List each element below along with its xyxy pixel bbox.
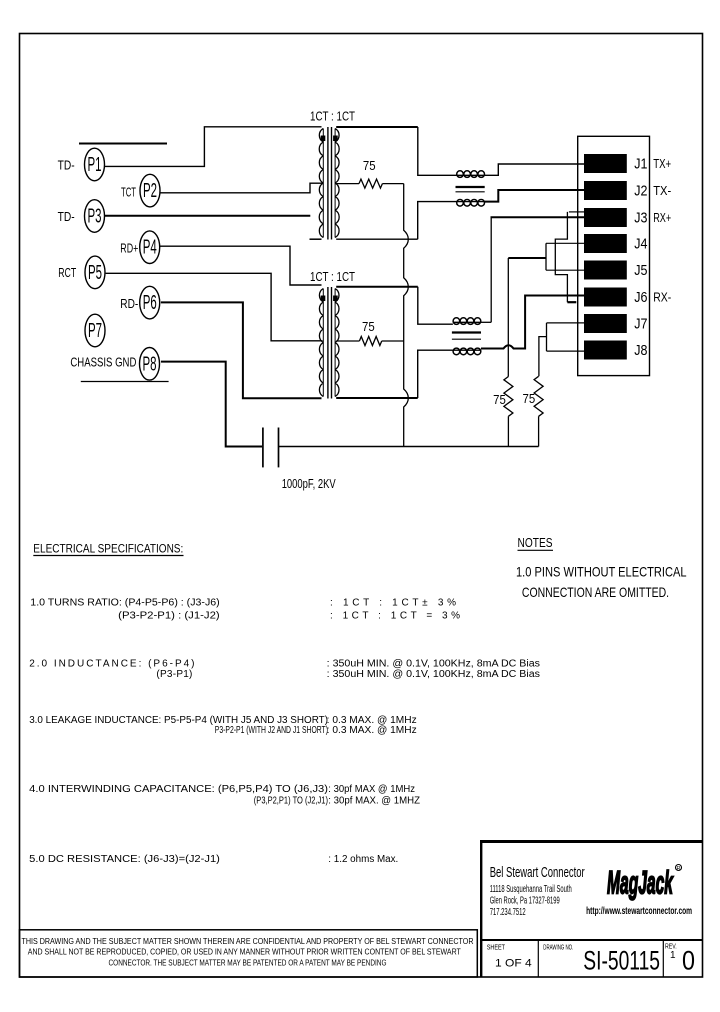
svg-text:P3-P2-P1 (WITH J2 AND J1 SHORT: P3-P2-P1 (WITH J2 AND J1 SHORT): [215, 725, 328, 736]
svg-text:J5: J5: [634, 263, 647, 279]
svg-text:75: 75: [493, 392, 506, 407]
wire P4 to T2 primary top: [160, 246, 322, 285]
svg-text:TD-: TD-: [58, 159, 75, 173]
wire L2 output A up to J3 (thick): [481, 321, 491, 323]
wire P8 (thick) to capacitor C1: [161, 362, 262, 447]
svg-text:717.234.7512: 717.234.7512: [490, 907, 526, 918]
svg-text:: 0.3 MAX. @ 1MHz: : 0.3 MAX. @ 1MHz: [327, 725, 417, 736]
svg-text:CONNECTOR. THE SUBJECT MATTER: CONNECTOR. THE SUBJECT MATTER MAY BE PAT…: [109, 957, 387, 967]
wire P6 (thick) to T2 primary bottom: [161, 302, 322, 398]
pin P4: [140, 231, 160, 264]
resistor R4 75: [534, 376, 543, 416]
line under CHASSIS GND label: [81, 381, 169, 383]
svg-text:J2: J2: [634, 184, 647, 200]
svg-text:1000pF, 2KV: 1000pF, 2KV: [282, 477, 336, 491]
wire T1 bottom to L1 input B: [418, 202, 457, 240]
wire L1 output B to J2 (thick): [485, 190, 585, 202]
wire T1 top to L1 input A: [418, 127, 457, 175]
wire L1 output A to J1: [485, 164, 585, 175]
stub T1 primary bottom lead: [310, 238, 322, 240]
svg-text:TCT: TCT: [121, 186, 136, 200]
wire P3 (thick): [105, 215, 311, 217]
svg-text:5.0 DC RESISTANCE: (J6-J3)=(J2: 5.0 DC RESISTANCE: (J6-J3)=(J2-J1): [29, 854, 220, 865]
wire T1 secondary bottom: [336, 238, 418, 240]
pin P5: [85, 256, 105, 289]
pin P3: [85, 200, 105, 233]
svg-text:75: 75: [362, 319, 375, 334]
wire T2 secondary bottom (thick): [336, 397, 418, 399]
wire J7-J8 tie vertical: [546, 323, 548, 351]
contact J8: [584, 341, 627, 360]
svg-text:Bel Stewart Connector: Bel Stewart Connector: [490, 864, 585, 881]
wire ground rail: [279, 446, 539, 448]
wire T2 secondary center tap to R2: [336, 340, 359, 342]
svg-text:P4: P4: [143, 237, 157, 259]
contact J3: [584, 208, 627, 227]
svg-text:: 1CT : 1CT = 3%: : 1CT : 1CT = 3%: [330, 611, 460, 622]
contact J5: [584, 261, 627, 280]
pin P8: [140, 348, 160, 381]
wire T2 bottom to L2 input B: [418, 350, 453, 398]
choke L1 core: [456, 187, 485, 192]
svg-text:: 30pf MAX. @ 1MHZ: : 30pf MAX. @ 1MHZ: [328, 796, 420, 807]
svg-text:0: 0: [682, 946, 695, 976]
svg-text:1 OF 4: 1 OF 4: [495, 958, 532, 970]
svg-text:: 350uH MIN. @ 0.1V, 100KHz, 8: : 350uH MIN. @ 0.1V, 100KHz, 8mA DC Bias: [327, 669, 540, 680]
svg-text:: 1.2 ohms Max.: : 1.2 ohms Max.: [328, 854, 398, 865]
choke L1 winding B: [457, 200, 485, 207]
choke L2 winding B: [453, 348, 481, 355]
wire tie jog to R4: [539, 337, 547, 377]
wire T2 top to L2 input A: [418, 287, 453, 324]
svg-text:P6: P6: [143, 292, 157, 314]
svg-text:J6: J6: [634, 290, 647, 306]
svg-text:P3: P3: [88, 206, 102, 228]
svg-text:J7: J7: [634, 317, 647, 333]
svg-text:P1: P1: [88, 154, 102, 176]
svg-text:TX+: TX+: [653, 157, 671, 171]
wire tie to R3 (thick): [508, 257, 546, 259]
wire J4-J5 tie vertical: [545, 243, 547, 270]
svg-text:1.0 PINS WITHOUT ELECTRICAL: 1.0 PINS WITHOUT ELECTRICAL: [516, 563, 687, 579]
resistor R2 75 (RX termination): [359, 337, 381, 346]
svg-text:TX-: TX-: [653, 184, 671, 198]
wire R3 drop vertical: [507, 258, 509, 377]
wire to J3 (thick): [491, 216, 585, 218]
svg-text:1: 1: [670, 950, 676, 961]
wire T2 secondary top (thick): [336, 286, 418, 288]
wire T1 secondary center tap to R1: [336, 183, 359, 185]
wire vertical to J3: [490, 217, 492, 322]
svg-text:: 350uH MIN. @ 0.1V, 100KHz, 8: : 350uH MIN. @ 0.1V, 100KHz, 8mA DC Bias: [327, 659, 540, 670]
svg-text:(P3-P2-P1) : (J1-J2): (P3-P2-P1) : (J1-J2): [118, 611, 219, 622]
contact J2: [584, 181, 627, 200]
svg-text:NOTES: NOTES: [518, 535, 553, 550]
svg-text:P2: P2: [143, 180, 157, 202]
transformer T2 primary winding: [319, 289, 323, 397]
svg-text:1CT : 1CT: 1CT : 1CT: [310, 108, 355, 123]
transformer T2 core: [328, 287, 332, 399]
svg-text:ELECTRICAL SPECIFICATIONS:: ELECTRICAL SPECIFICATIONS:: [33, 542, 183, 556]
choke L2 winding A: [453, 318, 481, 325]
wire J4: [546, 242, 585, 244]
svg-text:MagJack: MagJack: [607, 865, 674, 901]
svg-text:1CT : 1CT: 1CT : 1CT: [310, 269, 355, 284]
svg-text:(P3,P2,P1) TO (J2,J1): (P3,P2,P1) TO (J2,J1): [254, 796, 328, 807]
revision 1 0: [670, 946, 695, 976]
svg-text:75: 75: [363, 158, 376, 173]
svg-text:CONNECTION ARE OMITTED.: CONNECTION ARE OMITTED.: [522, 584, 669, 600]
svg-text:RX+: RX+: [653, 211, 671, 225]
svg-text:J3: J3: [634, 211, 647, 227]
svg-text:RD-: RD-: [120, 297, 138, 311]
svg-text:P8: P8: [143, 353, 157, 375]
svg-text:2.0 INDUCTANCE: (P6-P4): 2.0 INDUCTANCE: (P6-P4): [29, 659, 194, 670]
svg-text:TD-: TD-: [58, 210, 75, 224]
svg-text:J8: J8: [634, 343, 647, 359]
wire J8: [547, 350, 585, 352]
svg-text:75: 75: [523, 391, 536, 406]
svg-text:CHASSIS GND: CHASSIS GND: [70, 356, 136, 370]
title block outline: [480, 842, 702, 978]
wire P1 to T1 primary top: [105, 127, 322, 167]
svg-text:R: R: [677, 866, 681, 872]
wire P2 to T1 primary center tap: [160, 183, 323, 193]
wire R2 to node rail: [382, 340, 404, 342]
MagJack logo: [607, 865, 682, 901]
contact J7: [584, 314, 627, 333]
resistor R1 75 (TX termination): [359, 179, 382, 188]
wire J7: [547, 322, 585, 324]
wire P5 to T2 primary center tap: [106, 273, 323, 341]
connector J outline: [578, 136, 650, 375]
svg-text:RCT: RCT: [58, 266, 76, 280]
contact J6: [584, 288, 627, 307]
choke L2 core: [452, 333, 481, 340]
transformer T2 polarity dots: [321, 296, 338, 302]
pin P1: [85, 148, 105, 181]
svg-text:SHEET: SHEET: [487, 944, 506, 951]
svg-text:: 1CT : 1CT± 3%: : 1CT : 1CT± 3%: [330, 598, 456, 609]
choke L1 winding A: [457, 171, 485, 178]
wire J5: [546, 269, 585, 271]
transformer T1 polarity dots: [321, 136, 338, 142]
tick at jumper end near J6: [567, 301, 576, 303]
svg-text:SI-50115: SI-50115: [583, 946, 660, 976]
wire J3 stub jumper: [569, 211, 585, 213]
pin P6: [140, 286, 160, 319]
svg-text:: 30pf MAX @ 1MHz: : 30pf MAX @ 1MHz: [328, 784, 415, 795]
underline: [33, 555, 183, 557]
bar above P1: [79, 143, 167, 145]
svg-text:P7: P7: [88, 320, 102, 342]
transformer T2 secondary winding: [335, 289, 339, 397]
pin P7: [85, 314, 105, 347]
wire R3 bottom: [507, 416, 509, 446]
resistor R3 75: [504, 377, 513, 417]
disclaimer box: [20, 930, 478, 977]
svg-text:(P3-P1): (P3-P1): [156, 669, 192, 680]
svg-text:THIS DRAWING AND THE SUBJECT M: THIS DRAWING AND THE SUBJECT MATTER SHOW…: [22, 936, 474, 946]
svg-text:J1: J1: [634, 157, 647, 173]
capacitor C1 plates: [263, 428, 279, 468]
pin P2: [140, 174, 160, 207]
title block strip dividers: [538, 940, 663, 977]
wire T1 secondary top (thick): [336, 126, 418, 128]
svg-text:RD+: RD+: [120, 241, 138, 255]
svg-text:4.0 INTERWINDING CAPACITANCE:: 4.0 INTERWINDING CAPACITANCE: (P6,P5,P4)…: [29, 784, 328, 795]
wire L2 output B (thick, hops over R3 drop) to J6: [481, 296, 585, 349]
wire R4 bottom: [538, 416, 540, 446]
svg-text:http://www.stewartconnector.co: http://www.stewartconnector.com: [586, 905, 692, 917]
contact J1: [584, 154, 627, 173]
transformer T1 core: [328, 127, 332, 240]
svg-text:DRAWING NO.: DRAWING NO.: [543, 944, 573, 951]
transformer T1 primary winding: [319, 129, 323, 238]
svg-text:J4: J4: [634, 237, 647, 253]
svg-text:RX-: RX-: [653, 291, 671, 305]
svg-text:AND SHALL NOT BE REPRODUCED, C: AND SHALL NOT BE REPRODUCED, COPIED, OR …: [28, 947, 461, 957]
svg-text:P5: P5: [88, 262, 102, 284]
transformer T1 secondary winding: [335, 129, 339, 238]
wire jumper vertical segment 1: [555, 212, 567, 302]
svg-text:Glen Rock, Pa 17327-8199: Glen Rock, Pa 17327-8199: [490, 896, 560, 907]
contact J4: [584, 234, 627, 253]
wire center-tap vertical with crossover hops: [404, 184, 409, 447]
underline: [518, 549, 554, 551]
svg-text:11118 Susquehanna Trail South: 11118 Susquehanna Trail South: [490, 884, 572, 895]
wire R1 to node rail: [382, 183, 403, 185]
svg-text:1.0 TURNS RATIO: (P4-P5-P6) :: 1.0 TURNS RATIO: (P4-P5-P6) : (J3-J6): [30, 598, 219, 609]
